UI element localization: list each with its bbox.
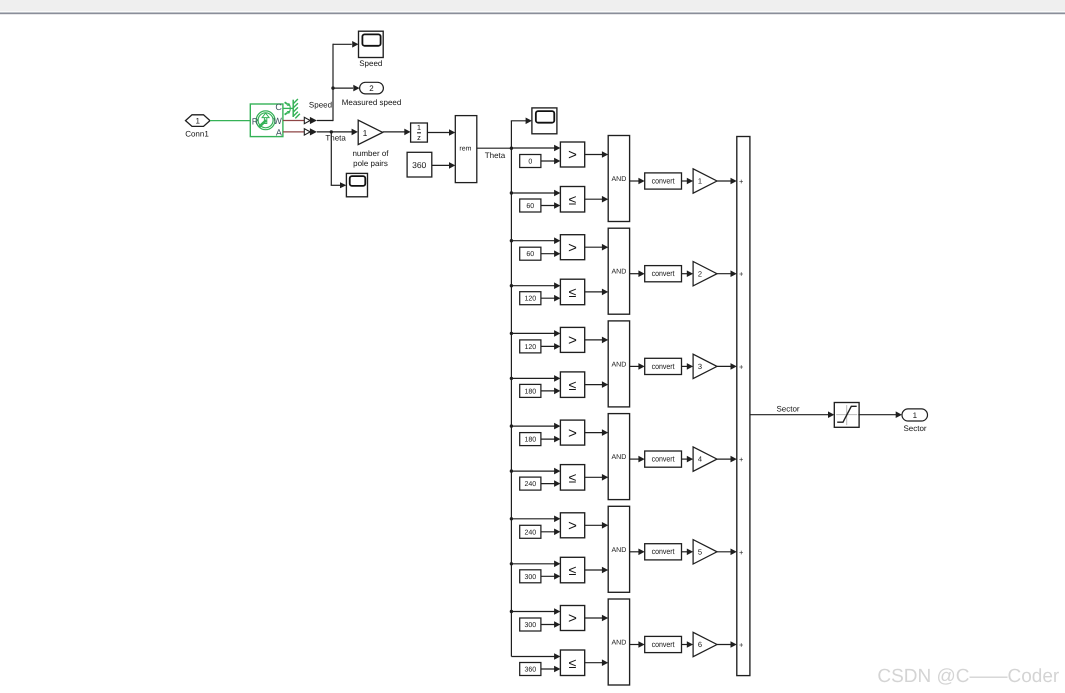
wire theta to GT5: [511, 516, 560, 523]
wire convert1 to gain1: [682, 178, 694, 185]
gain 5: [693, 540, 717, 564]
wire rem output (Theta): [477, 147, 512, 149]
svg-text:+: +: [739, 455, 744, 464]
relational operator GT2 (&gt;): [560, 235, 584, 260]
wire constant 60 to LE1: [541, 202, 561, 209]
constant 240 (row 4): [520, 477, 541, 490]
relational operator LE5 (&le;): [560, 557, 584, 583]
gain 1: [693, 169, 717, 193]
junction speed branch: [331, 86, 334, 89]
svg-text:>: >: [568, 147, 577, 164]
wire speed to Measured speed port: [333, 85, 360, 92]
wire theta to gain: [317, 129, 358, 136]
wire constant 240 to LE4: [541, 480, 561, 487]
relational operator LE3 (&le;): [560, 372, 584, 398]
svg-text:convert: convert: [652, 269, 676, 278]
wire LE3 to AND3: [585, 381, 609, 388]
wire convert3 to gain3: [682, 363, 694, 370]
wire constant 60 to GT2: [541, 250, 561, 257]
wire constant 300 to LE5: [541, 573, 561, 580]
wire convert5 to gain5: [682, 549, 694, 556]
wire constant 360 to LE6: [541, 666, 561, 673]
junction theta branch: [330, 130, 333, 133]
svg-text:0: 0: [528, 159, 532, 166]
wire LE4 to AND4: [585, 474, 609, 481]
svg-text:AND: AND: [612, 269, 627, 276]
sum block: [737, 137, 750, 676]
label Sector (signal name): [776, 405, 799, 414]
label Theta (rem output): [485, 151, 506, 160]
svg-text:rem: rem: [459, 145, 471, 152]
svg-text:1: 1: [698, 177, 702, 186]
wire LE5 to AND5: [585, 567, 609, 574]
relational operator GT3 (&gt;): [560, 327, 584, 352]
junction theta row 3 upper: [510, 332, 513, 335]
wire gain3 to sum: [717, 363, 737, 370]
wire AND3 to convert3: [630, 363, 645, 370]
svg-text:AND: AND: [612, 361, 627, 368]
wire GT3 to AND3: [585, 337, 609, 344]
wire AND2 to convert2: [630, 270, 645, 277]
wire constant 0 to GT1: [541, 158, 561, 165]
sum plus sign 3: [739, 362, 744, 371]
svg-text:≤: ≤: [569, 655, 577, 671]
junction theta row 4 lower: [510, 469, 513, 472]
svg-text:>: >: [568, 332, 577, 349]
wire saturation to outport Sector: [858, 411, 902, 418]
junction theta row 5 upper: [510, 517, 513, 520]
svg-text:180: 180: [524, 388, 536, 395]
wire LE1 to AND1: [585, 196, 609, 203]
svg-text:180: 180: [524, 437, 536, 444]
relational operator GT1 (&gt;): [560, 142, 584, 167]
wire theta up to scope: [511, 118, 532, 149]
svg-text:Conn1: Conn1: [185, 129, 209, 138]
svg-text:+: +: [739, 641, 744, 650]
svg-text:1: 1: [363, 128, 368, 138]
wire theta to LE5: [511, 561, 560, 568]
svg-text:AND: AND: [612, 640, 627, 647]
wire AND6 to convert6: [630, 641, 645, 648]
svg-text:60: 60: [526, 251, 534, 258]
svg-text:Speed: Speed: [309, 101, 332, 110]
wire theta to GT6: [511, 608, 560, 615]
PS-Simulink converter (theta): [304, 128, 317, 135]
junction theta bus: [510, 147, 513, 150]
svg-text:+: +: [739, 362, 744, 371]
constant 180 (row 3): [520, 384, 541, 397]
wire AND5 to convert5: [630, 549, 645, 556]
gain 2: [693, 262, 717, 286]
outport 1 Sector: [902, 409, 928, 421]
constant 240 (row 5): [520, 525, 541, 538]
wire constant 180 to GT4: [541, 436, 561, 443]
junction theta row 4 upper: [510, 424, 513, 427]
svg-text:360: 360: [412, 160, 426, 170]
rotational reference (mechanical ground): [293, 99, 300, 118]
svg-text:≤: ≤: [569, 284, 577, 300]
wire GT1 to AND1: [585, 151, 609, 158]
watermark CSDN: [877, 666, 1060, 687]
svg-text:≤: ≤: [569, 191, 577, 207]
svg-text:>: >: [568, 239, 577, 256]
wire gain to unit delay: [383, 129, 411, 136]
svg-text:+: +: [739, 548, 744, 557]
svg-text:2: 2: [369, 84, 374, 93]
constant 60 (row 1): [520, 199, 541, 212]
junction theta row 1 lower: [510, 191, 513, 194]
svg-text:Sector: Sector: [776, 405, 799, 414]
svg-text:2: 2: [698, 269, 702, 278]
scope Speed: [359, 31, 384, 57]
data type conversion convert3: [645, 358, 682, 374]
svg-text:W: W: [273, 116, 282, 126]
gain 4: [693, 447, 717, 471]
theta bus vertical wire: [510, 148, 512, 656]
constant 300 (row 6): [520, 618, 541, 631]
junction theta row 2 lower: [510, 284, 513, 287]
wire theta to GT4: [511, 423, 560, 430]
svg-text:60: 60: [526, 203, 534, 210]
label Speed (scope): [359, 59, 382, 68]
rotational motion sensor block: [250, 104, 283, 137]
wire theta to LE1: [511, 190, 560, 197]
svg-text:z: z: [417, 133, 421, 142]
junction theta row 5 lower: [510, 562, 513, 565]
gain 6: [693, 632, 717, 656]
physical port Conn1: [186, 115, 211, 127]
wire convert6 to gain6: [682, 641, 694, 648]
junction theta row 6 upper: [510, 610, 513, 613]
sum plus sign 4: [739, 455, 744, 464]
svg-text:Theta: Theta: [485, 151, 506, 160]
wire constant 360 to rem: [432, 162, 456, 169]
label Measured speed: [342, 98, 402, 107]
wire gain1 to sum: [717, 178, 737, 185]
unit delay 1/z: [411, 123, 428, 142]
svg-text:5: 5: [698, 547, 702, 556]
svg-text:240: 240: [524, 481, 536, 488]
label Conn1: [185, 129, 209, 138]
wire constant 120 to LE2: [541, 295, 561, 302]
constant 120 (row 3): [520, 340, 541, 353]
data type conversion convert1: [645, 173, 682, 189]
sensor port label C: [275, 102, 282, 112]
svg-text:AND: AND: [612, 547, 627, 554]
svg-text:1: 1: [913, 411, 918, 420]
constant 0 (row 1): [520, 155, 541, 168]
constant 300 (row 5): [520, 570, 541, 583]
svg-text:R: R: [252, 116, 259, 126]
scope Theta after rem: [532, 108, 557, 134]
logical operator AND6: [608, 599, 629, 685]
svg-text:300: 300: [524, 622, 536, 629]
wire speed up to Speed scope: [317, 41, 359, 121]
wire gain6 to sum: [717, 641, 737, 648]
wire theta down to scope: [331, 132, 347, 188]
svg-text:120: 120: [524, 296, 536, 303]
svg-text:≤: ≤: [569, 470, 577, 486]
junction theta row 3 lower: [510, 377, 513, 380]
relational operator LE6 (&le;): [560, 650, 584, 676]
constant 60 (row 2): [520, 247, 541, 260]
wire GT4 to AND4: [585, 429, 609, 436]
svg-text:1: 1: [417, 123, 421, 132]
toolbar strip: [0, 0, 1065, 14]
data type conversion convert4: [645, 451, 682, 467]
scope Theta (unnamed): [346, 173, 367, 196]
relational operator GT5 (&gt;): [560, 513, 584, 538]
function block rem: [455, 116, 477, 183]
svg-text:≤: ≤: [569, 377, 577, 393]
sensor port label W: [273, 116, 282, 126]
svg-text:convert: convert: [652, 176, 676, 185]
svg-text:C: C: [275, 102, 282, 112]
wire theta to LE4: [511, 468, 560, 475]
wire theta to LE6: [511, 653, 560, 660]
wire theta to LE3: [511, 375, 560, 382]
wire gain4 to sum: [717, 456, 737, 463]
label Speed (signal name): [309, 101, 332, 110]
wire theta to GT3: [511, 330, 560, 337]
wire theta to GT2: [511, 237, 560, 244]
svg-text:AND: AND: [612, 454, 627, 461]
wire LE2 to AND2: [585, 289, 609, 296]
logical operator AND2: [608, 228, 629, 314]
svg-text:number of: number of: [352, 149, 389, 158]
svg-text:360: 360: [524, 667, 536, 674]
wire sensor C to rotational reference (green): [283, 107, 293, 109]
svg-text:convert: convert: [652, 547, 676, 556]
svg-text:≤: ≤: [569, 562, 577, 578]
svg-text:120: 120: [524, 344, 536, 351]
svg-text:A: A: [276, 128, 282, 138]
sum plus sign 6: [739, 641, 744, 650]
sensor dial icon: [256, 111, 275, 130]
wire constant 180 to LE3: [541, 388, 561, 395]
sum plus sign 5: [739, 548, 744, 557]
wire GT6 to AND6: [585, 615, 609, 622]
svg-text:+: +: [739, 270, 744, 279]
constant 360 (row 6): [520, 663, 541, 676]
svg-text:300: 300: [524, 574, 536, 581]
svg-text:Sector: Sector: [903, 424, 926, 433]
wire GT5 to AND5: [585, 522, 609, 529]
wire AND1 to convert1: [630, 178, 645, 185]
svg-text:Theta: Theta: [325, 134, 346, 143]
logical operator AND4: [608, 414, 629, 500]
label number of pole pairs: [352, 149, 389, 168]
constant 120 (row 2): [520, 292, 541, 305]
svg-text:Measured speed: Measured speed: [342, 98, 402, 107]
relational operator LE4 (&le;): [560, 465, 584, 491]
svg-text:CSDN @C——Coder: CSDN @C——Coder: [877, 666, 1060, 687]
data type conversion convert2: [645, 266, 682, 282]
wire constant 240 to GT5: [541, 529, 561, 536]
svg-text:Speed: Speed: [359, 59, 382, 68]
svg-text:convert: convert: [652, 640, 676, 649]
svg-text:pole pairs: pole pairs: [353, 159, 388, 168]
logical operator AND5: [608, 506, 629, 592]
wire theta to LE2: [511, 282, 560, 289]
svg-text:4: 4: [698, 455, 702, 464]
relational operator LE1 (&le;): [560, 187, 584, 213]
label Theta (signal name): [325, 134, 346, 143]
svg-text:1: 1: [195, 116, 200, 125]
logical operator AND3: [608, 321, 629, 407]
relational operator GT4 (&gt;): [560, 420, 584, 445]
wire GT2 to AND2: [585, 244, 609, 251]
wire convert2 to gain2: [682, 270, 694, 277]
wire sensor A to converter (physical): [283, 131, 304, 133]
wire theta to GT1: [511, 145, 560, 152]
sensor port label A: [276, 128, 282, 138]
svg-text:>: >: [568, 425, 577, 442]
junction theta row 2 upper: [510, 239, 513, 242]
wire sum to saturation (Sector): [750, 411, 834, 418]
outport 2 Measured speed: [360, 82, 384, 94]
wire constant 120 to GT3: [541, 343, 561, 350]
saturation block: [834, 403, 859, 428]
wire sensor W to converter (physical): [283, 120, 304, 122]
svg-text:>: >: [568, 610, 577, 627]
wire convert4 to gain4: [682, 456, 694, 463]
wire gain2 to sum: [717, 270, 737, 277]
gain 3: [693, 354, 717, 378]
wire constant 300 to GT6: [541, 621, 561, 628]
constant 360: [407, 152, 432, 177]
data type conversion convert5: [645, 544, 682, 560]
svg-text:3: 3: [698, 362, 702, 371]
gain number of pole pairs: [358, 120, 383, 144]
svg-text:240: 240: [524, 529, 536, 536]
svg-text:6: 6: [698, 640, 702, 649]
rotation clamp arrows: [285, 102, 291, 114]
wire unit delay to rem: [427, 129, 455, 136]
wire gain5 to sum: [717, 549, 737, 556]
relational operator GT6 (&gt;): [560, 606, 584, 631]
logical operator AND1: [608, 136, 629, 222]
svg-text:AND: AND: [612, 176, 627, 183]
sum plus sign 2: [739, 270, 744, 279]
svg-text:convert: convert: [652, 455, 676, 464]
label Sector (outport): [903, 424, 926, 433]
wire LE6 to AND6: [585, 659, 609, 666]
sum plus sign 1: [739, 177, 744, 186]
relational operator LE2 (&le;): [560, 279, 584, 305]
svg-text:+: +: [739, 177, 744, 186]
data type conversion convert6: [645, 636, 682, 652]
wire AND4 to convert4: [630, 456, 645, 463]
svg-text:>: >: [568, 518, 577, 535]
sensor port label R: [252, 116, 259, 126]
svg-text:convert: convert: [652, 362, 676, 371]
wire Conn1 to sensor R (green physical): [210, 120, 250, 122]
PS-Simulink converter (speed): [304, 117, 317, 124]
constant 180 (row 4): [520, 433, 541, 446]
